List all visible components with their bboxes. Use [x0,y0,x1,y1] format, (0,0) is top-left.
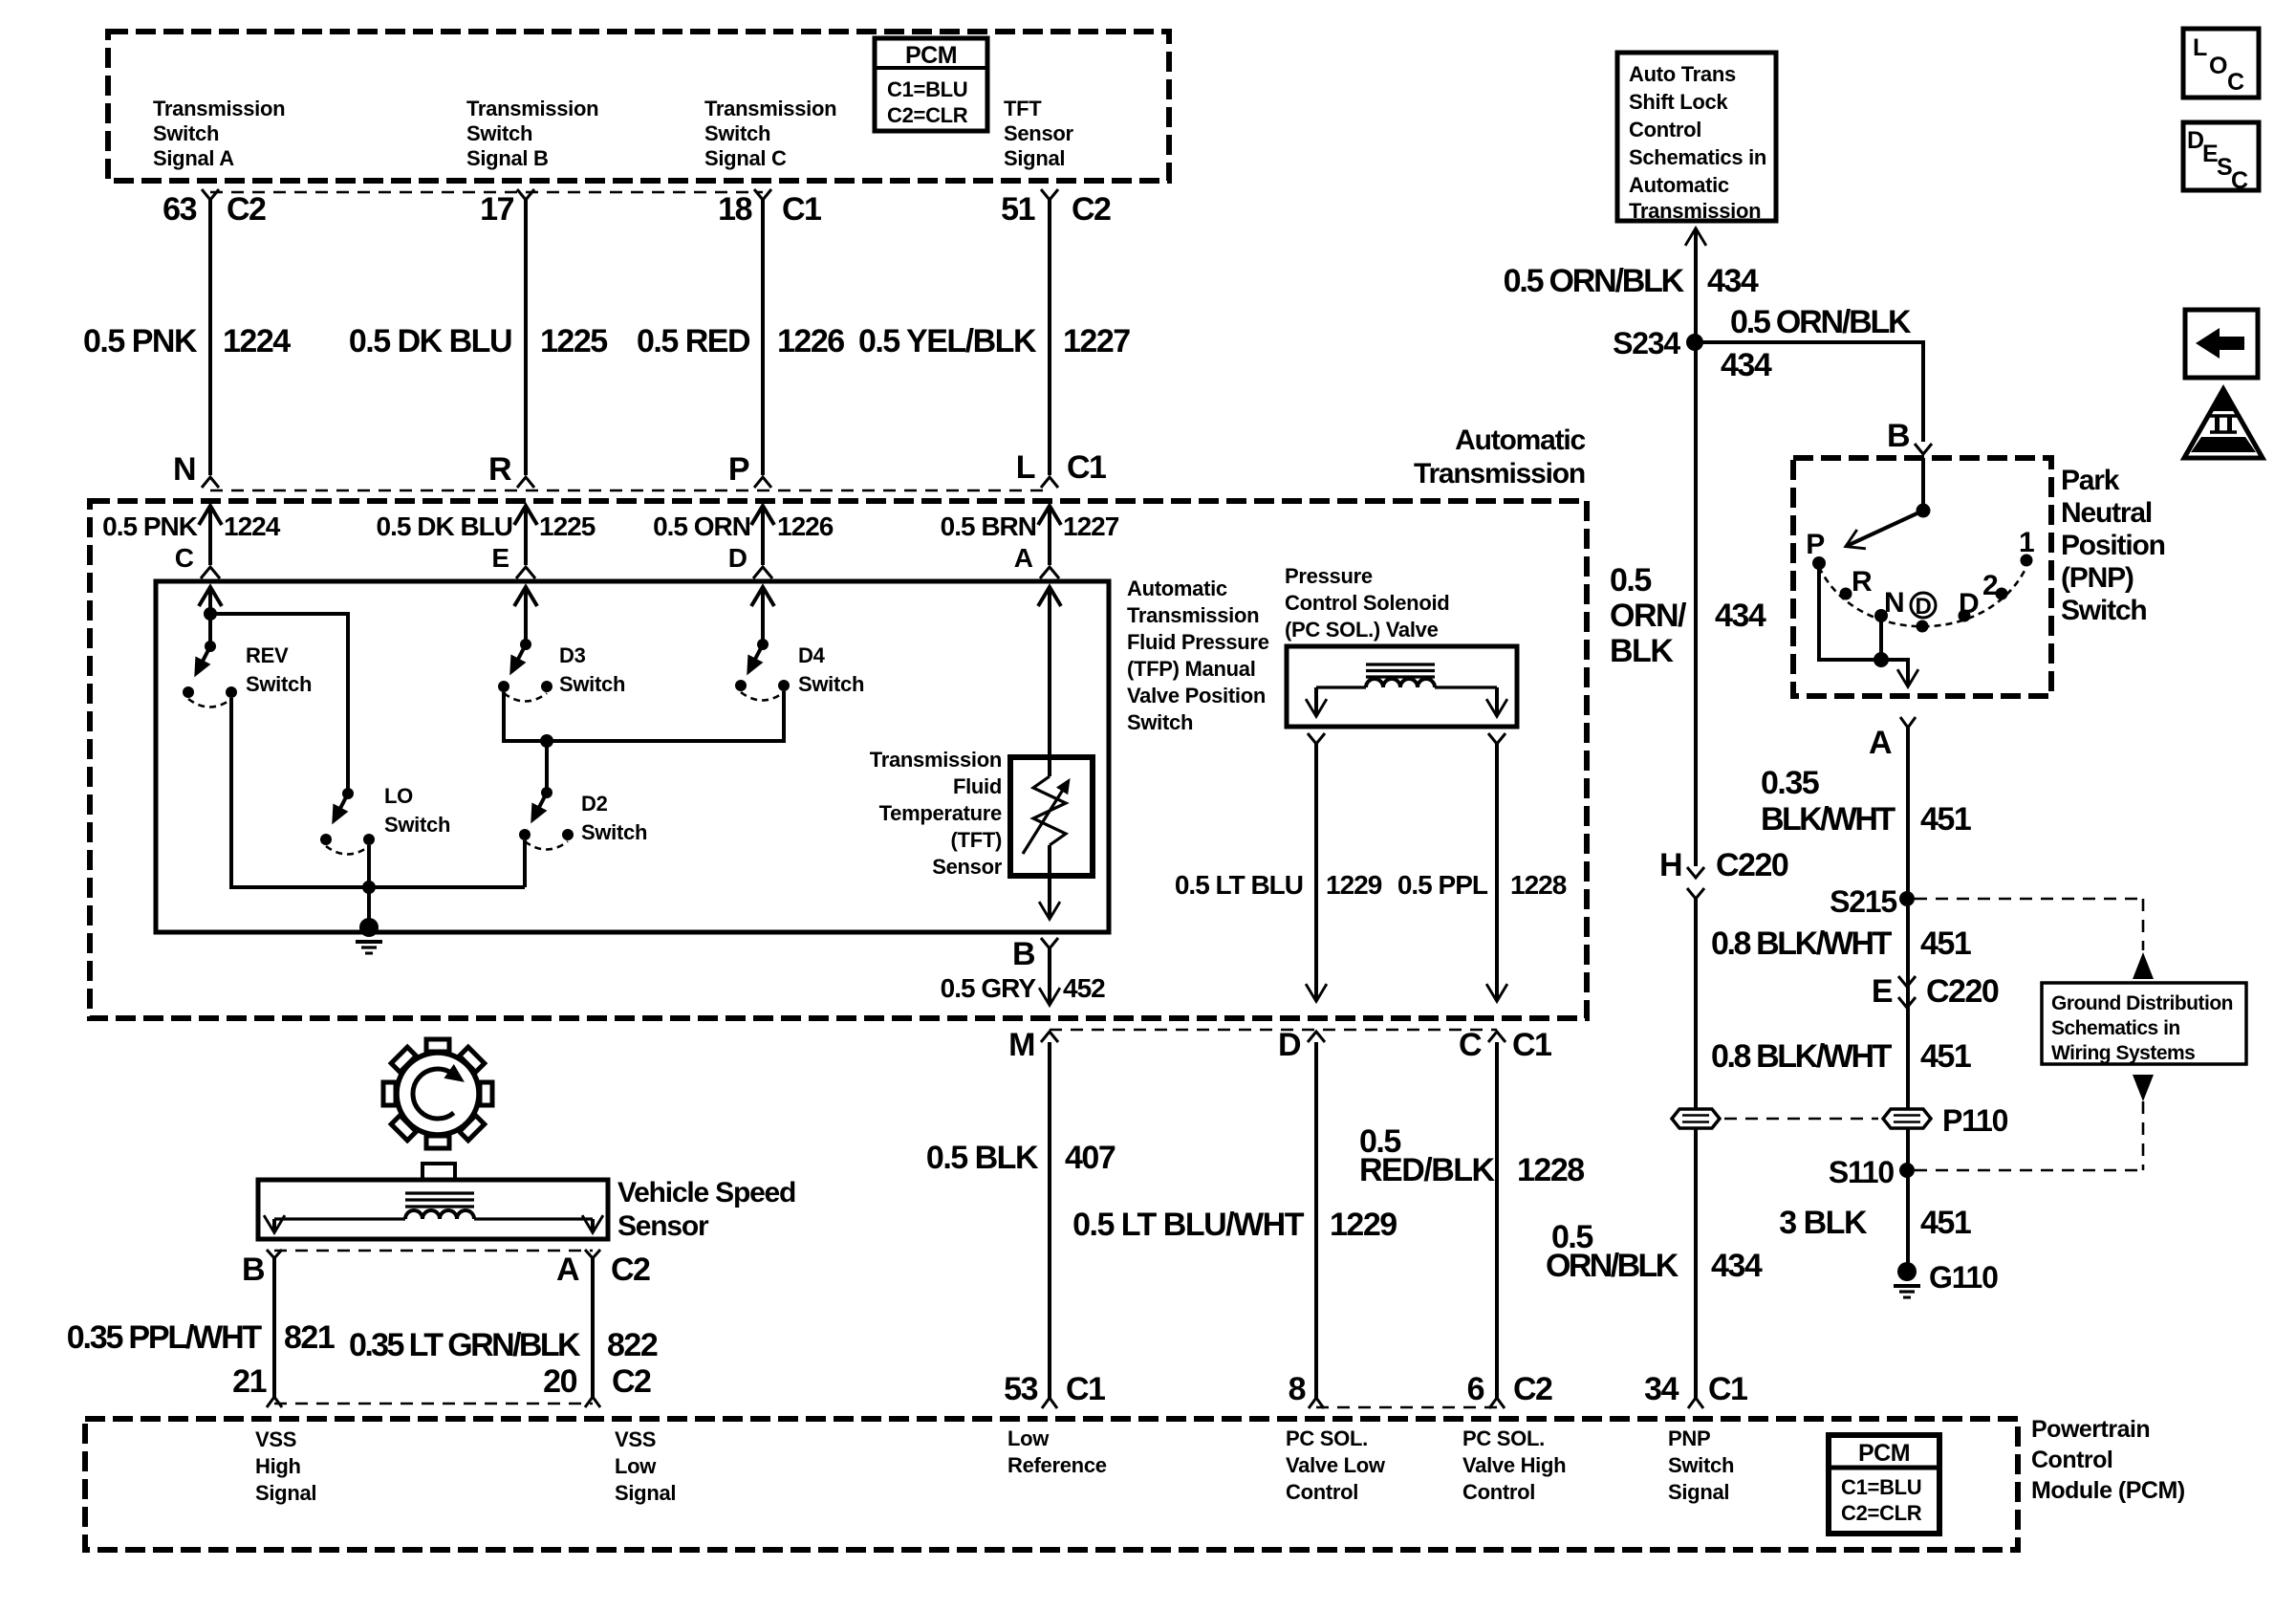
svg-text:(PC SOL.) Valve: (PC SOL.) Valve [1285,618,1439,642]
pin label 8 [1289,1371,1306,1407]
ground TFP switch [356,918,382,953]
wire label 0.5 ORN/BLK 434 vertical [1610,562,1766,669]
wire label 0.5 ORN 1226 inner [653,512,834,573]
svg-text:1226: 1226 [777,323,844,359]
svg-text:VSS: VSS [255,1427,296,1451]
icon LOC box [2183,29,2259,98]
PNP selector arm [1847,458,1931,546]
wire 1225 top (0.5 DK BLU) pin 17 to R [517,189,534,488]
switch D3 [498,639,552,702]
svg-text:1228: 1228 [1510,870,1567,900]
svg-text:A: A [1869,725,1892,761]
svg-text:C1: C1 [782,191,821,228]
svg-text:51: 51 [1001,191,1034,228]
svg-text:D2: D2 [581,792,608,816]
svg-text:34: 34 [1644,1371,1679,1407]
svg-text:Control: Control [1629,118,1701,142]
connector line 21 20 [274,1403,593,1405]
svg-text:D3: D3 [559,643,586,667]
svg-text:63: 63 [162,191,196,228]
svg-text:Position: Position [2061,530,2165,561]
svg-text:Automatic: Automatic [1455,425,1585,456]
svg-text:C2: C2 [1072,191,1111,228]
svg-text:Switch: Switch [581,820,647,844]
PNP contact 2 [1982,570,2008,601]
svg-text:D: D [1915,594,1931,620]
svg-text:P: P [728,451,749,488]
VSS reluctor gear icon [383,1039,492,1148]
wire 1227 AT entry pin A [1038,506,1061,578]
Ground Distribution reference box [2042,952,2246,1170]
svg-text:Switch: Switch [1668,1453,1734,1477]
wire label 0.5 LT BLU 1229 [1175,870,1382,900]
svg-text:1224: 1224 [224,512,281,541]
connector line M D C [1050,1029,1497,1032]
svg-text:E: E [1872,973,1893,1010]
PNP contact R [1840,566,1874,600]
svg-text:Sensor: Sensor [1004,121,1074,145]
svg-text:C2: C2 [227,191,266,228]
svg-text:C2: C2 [611,1252,650,1288]
svg-text:1225: 1225 [539,512,596,541]
svg-text:Ground Distribution: Ground Distribution [2051,992,2233,1014]
svg-text:LO: LO [384,784,413,808]
connector line top (PCM side) [210,191,763,194]
label Transmission Switch Signal B [466,97,598,170]
svg-text:0.5 ORN: 0.5 ORN [653,512,750,541]
wire label 0.5 PNK 1224 [83,323,291,359]
svg-text:Sensor: Sensor [932,855,1003,879]
svg-text:18: 18 [718,191,751,228]
svg-text:Control: Control [1462,1480,1535,1504]
svg-text:Automatic: Automatic [1629,173,1729,197]
svg-text:S110: S110 [1829,1155,1895,1189]
wire 1228 (0.5 RED/BLK) pin C to 6 C2 [1488,1032,1505,1408]
splice S234 [1613,326,1703,360]
svg-text:Transmission: Transmission [153,97,285,120]
connector line 8 6 [1316,1406,1497,1409]
svg-text:Control: Control [1286,1480,1358,1504]
wire LO to ground node [367,845,371,887]
label TFT Sensor Signal [1004,97,1074,170]
svg-text:Transmission: Transmission [466,97,598,120]
svg-text:C220: C220 [1926,973,1999,1010]
svg-text:S234: S234 [1613,326,1680,360]
label LO Switch [384,784,450,837]
wire label 0.5 BRN 1227 inner [941,512,1119,573]
wire D3 entry [514,586,537,644]
svg-text:Fluid Pressure: Fluid Pressure [1127,630,1269,654]
svg-text:Reference: Reference [1007,1453,1107,1477]
wire D4 entry [751,586,774,644]
svg-text:ORN/BLK: ORN/BLK [1546,1248,1679,1284]
wire label 0.5 DK BLU 1225 [349,323,607,359]
svg-text:434: 434 [1707,263,1759,299]
svg-text:Signal: Signal [1668,1480,1729,1504]
svg-text:L: L [1016,449,1035,486]
TFT sensor box [1010,757,1093,876]
VSS stem [422,1164,455,1180]
svg-text:B: B [242,1252,265,1288]
label REV Switch [246,643,312,696]
svg-text:D: D [728,543,747,573]
svg-text:Valve Position: Valve Position [1127,684,1266,708]
svg-text:1227: 1227 [1063,323,1130,359]
svg-text:Schematics in: Schematics in [2051,1017,2180,1039]
label D3 Switch [559,643,625,696]
VSS sensor box [258,1180,608,1239]
svg-text:Park: Park [2061,465,2120,496]
svg-text:R: R [1852,566,1873,598]
pin label P [728,451,749,488]
svg-text:821: 821 [284,1319,335,1356]
svg-text:0.5 BRN: 0.5 BRN [941,512,1036,541]
pin label B [242,1252,265,1288]
wire 1229 (0.5 LT BLU/WHT) pin D to 8 [1308,1032,1325,1408]
wire 1227 top (0.5 YEL/BLK) pin 51 C2 to L [1041,189,1058,488]
svg-text:17: 17 [480,191,513,228]
solenoid coil PC SOL [1316,664,1497,687]
svg-text:C: C [175,543,194,573]
svg-text:434: 434 [1715,598,1766,634]
wire D3-D4 common [504,691,784,741]
label VSS High Signal [255,1427,316,1505]
svg-text:Switch: Switch [798,672,864,696]
svg-text:PC SOL.: PC SOL. [1462,1426,1545,1450]
svg-text:Switch: Switch [1127,710,1193,734]
PNP contact D circled [1911,593,1936,633]
Auto Trans Shift Lock reference box [1617,53,1776,223]
wire VSS right lead arrow [591,1219,595,1231]
label Pressure Control Solenoid Valve [1285,564,1449,642]
svg-text:1: 1 [2019,527,2034,558]
label TFT sensor [870,748,1003,879]
svg-text:407: 407 [1065,1140,1116,1176]
svg-text:Valve High: Valve High [1462,1453,1566,1477]
PNP contact P [1806,529,1826,570]
svg-text:0.5 GRY: 0.5 GRY [941,973,1037,1003]
svg-text:0.5 DK BLU: 0.5 DK BLU [349,323,511,359]
pin label 20 C2 [543,1363,651,1400]
wire 1226 top (0.5 RED) pin 18 C1 to P [754,189,771,488]
svg-text:C1: C1 [1708,1371,1747,1407]
svg-text:Fluid: Fluid [953,774,1002,798]
svg-text:C1=BLU: C1=BLU [887,77,967,101]
wire label 0.5 DK BLU 1225 inner [377,512,596,573]
junction D2 node [540,734,553,793]
label PNP Switch Signal [1668,1426,1734,1504]
svg-text:0.35 LT GRN/BLK: 0.35 LT GRN/BLK [349,1327,581,1363]
wire 1226 AT entry pin D [751,506,774,578]
svg-text:C: C [2231,167,2248,194]
svg-text:Transmission: Transmission [1414,458,1585,490]
svg-text:822: 822 [607,1327,658,1363]
label VSS Low Signal [615,1427,676,1505]
title Powertrain Control Module (PCM) bottom [2031,1416,2185,1504]
svg-text:0.5: 0.5 [1610,562,1651,599]
pin label N [173,451,195,488]
wire 1229 below solenoid [1308,733,1325,1000]
svg-text:0.5 DK BLU: 0.5 DK BLU [377,512,512,541]
svg-text:Control: Control [2031,1447,2112,1473]
svg-text:Switch: Switch [466,121,532,145]
connector line N R P L [210,490,1050,492]
svg-text:Signal C: Signal C [704,146,787,170]
svg-text:21: 21 [232,1363,266,1400]
svg-text:Module (PCM): Module (PCM) [2031,1477,2185,1504]
connector C220 pin E [1872,973,1999,1010]
wire 407 (0.5 BLK) pin M to 53 C1 [1041,1032,1058,1408]
PNP contact N [1874,587,1903,622]
svg-text:434: 434 [1721,347,1772,383]
wire label 0.5 RED 1226 [637,323,844,359]
pin label 17 [480,191,513,228]
svg-text:Pressure: Pressure [1285,564,1373,588]
wire label 0.8 BLK/WHT 451 lower [1711,1038,1971,1075]
svg-text:0.8 BLK/WHT: 0.8 BLK/WHT [1711,925,1893,962]
svg-text:Transmission: Transmission [1127,603,1259,627]
svg-text:BLK: BLK [1610,633,1674,669]
svg-text:1226: 1226 [777,512,834,541]
wire label 0.8 BLK/WHT 451 upper [1711,925,1971,962]
svg-text:0.35: 0.35 [1761,765,1819,801]
svg-text:Signal: Signal [1004,146,1065,170]
svg-text:S: S [2217,154,2232,181]
svg-text:Switch: Switch [246,672,312,696]
switch REV [183,641,237,708]
svg-text:G110: G110 [1929,1260,1998,1295]
svg-text:451: 451 [1920,801,1971,838]
svg-text:Switch: Switch [704,121,770,145]
svg-text:E: E [491,543,509,573]
thermistor TFT zigzag [1023,776,1068,876]
wire 1224 top (0.5 PNK) pin 63 C2 to N [202,189,219,488]
svg-text:Signal B: Signal B [466,146,549,170]
icon DESC box [2183,122,2259,194]
svg-text:1228: 1228 [1517,1152,1584,1188]
svg-text:Temperature: Temperature [879,801,1002,825]
svg-text:BLK/WHT: BLK/WHT [1761,801,1895,838]
wire REV branch entry [199,586,222,646]
svg-text:Control Solenoid: Control Solenoid [1285,591,1449,615]
pin label A PNP [1869,717,1916,761]
wire solenoid left lead arrow [1314,687,1318,715]
wire label 0.5 ORN/BLK 434 branch [1721,304,1912,383]
pin label B [1012,936,1035,972]
label D4 Switch [798,643,864,696]
svg-text:OBD II: OBD II [2206,437,2242,451]
wire 434 branch to PNP switch [1696,342,1932,454]
wire label 0.35 PPL/WHT 821 [67,1319,335,1356]
svg-text:0.5 ORN/BLK: 0.5 ORN/BLK [1730,304,1912,340]
svg-text:0.35 PPL/WHT: 0.35 PPL/WHT [67,1319,263,1356]
svg-text:Schematics in: Schematics in [1629,145,1766,169]
svg-text:(TFP) Manual: (TFP) Manual [1127,657,1256,681]
svg-text:Switch: Switch [384,813,450,837]
title Automatic Transmission [1414,425,1586,490]
svg-text:B: B [1887,418,1910,454]
svg-text:Switch: Switch [153,121,219,145]
svg-text:Powertrain: Powertrain [2031,1416,2150,1443]
pin label D [1278,1027,1301,1063]
wire PNP P to output [1819,567,1908,686]
svg-text:PNP: PNP [1668,1426,1710,1450]
pin label 63 C2 [162,191,266,228]
wire label 0.5 BLK 407 [926,1140,1116,1176]
wire label 0.35 LT GRN/BLK 822 [349,1327,658,1363]
svg-text:R: R [488,451,511,488]
svg-text:434: 434 [1711,1248,1763,1284]
svg-text:Signal: Signal [255,1481,316,1505]
svg-text:Low: Low [615,1454,657,1478]
wire 1224 AT entry pin C [199,506,222,578]
pin label R [488,451,511,488]
label PC SOL Valve Low Control [1286,1426,1386,1504]
svg-text:20: 20 [543,1363,576,1400]
wire label 0.5 RED/BLK 1228 [1359,1123,1584,1188]
pin label M [1008,1027,1034,1063]
title Vehicle Speed Sensor [617,1177,795,1242]
svg-text:A: A [1014,543,1033,573]
label PC SOL Valve High Control [1462,1426,1566,1504]
label Transmission Switch Signal A [153,97,285,170]
pin label 51 C2 [1001,191,1111,228]
wire 434 PNP signal main [1694,342,1698,866]
svg-text:C2=CLR: C2=CLR [887,103,968,127]
PCM top module box (Powertrain Control Module) [108,32,1169,181]
wire label 3 BLK 451 [1779,1205,1971,1241]
label Low Reference [1007,1426,1107,1477]
label Transmission Switch Signal C [704,97,836,170]
svg-text:D: D [1278,1027,1301,1063]
svg-text:O: O [2209,53,2227,79]
svg-text:Transmission: Transmission [870,748,1002,772]
wire 434 PNP signal lower [1694,899,1698,1400]
svg-text:8: 8 [1289,1371,1306,1407]
wire label 0.5 LT BLU/WHT 1229 [1072,1207,1397,1243]
svg-text:Transmission: Transmission [1629,199,1761,223]
svg-text:Sensor: Sensor [617,1210,709,1242]
PCM connector legend box bottom [1829,1435,1939,1534]
svg-text:Auto Trans: Auto Trans [1629,62,1736,86]
svg-text:PCM: PCM [1858,1440,1910,1467]
wire label 0.5 PPL 1228 [1397,870,1567,900]
svg-text:(TFT): (TFT) [951,828,1002,852]
PNP contact D [1959,588,1980,622]
wire 451 PNP to ground [1906,728,1910,1268]
svg-text:VSS: VSS [615,1427,656,1451]
PCM connector legend box top [875,38,987,131]
PCM bottom module box (Powertrain Control Module) [85,1419,2018,1550]
label D2 Switch [581,792,647,844]
wire 1228 below solenoid [1488,733,1505,1000]
splice S110 [1829,1155,2143,1189]
wire PNP signal bottom chevron [1688,1398,1703,1408]
svg-text:2: 2 [1982,570,1998,601]
label TFP switch description [1127,577,1269,734]
wire TFT sensor entry [1038,586,1061,776]
connector line B A [274,1250,593,1252]
svg-text:Wiring Systems: Wiring Systems [2051,1042,2195,1064]
svg-text:B: B [1012,936,1035,972]
pin label 21 [232,1363,266,1400]
title Park Neutral Position (PNP) Switch [2061,465,2165,626]
ground G110 [1894,1260,1998,1297]
svg-text:Low: Low [1007,1426,1050,1450]
PNP contact arc [1819,567,2026,626]
svg-text:53: 53 [1004,1371,1037,1407]
svg-text:0.5 ORN/BLK: 0.5 ORN/BLK [1504,263,1685,299]
svg-text:1227: 1227 [1063,512,1119,541]
svg-text:(PNP): (PNP) [2061,562,2134,594]
svg-text:Valve Low: Valve Low [1286,1453,1386,1477]
wire solenoid right lead arrow [1495,687,1499,715]
connector C220 pin H [1659,847,1788,899]
svg-text:C1: C1 [1067,449,1106,486]
pin label B PNP [1887,418,1910,454]
svg-text:Automatic: Automatic [1127,577,1227,600]
wire 822 pin A to 20 [585,1250,600,1407]
svg-text:0.5 PNK: 0.5 PNK [83,323,198,359]
svg-text:451: 451 [1920,1205,1971,1241]
svg-text:RED/BLK: RED/BLK [1359,1152,1496,1188]
svg-text:PCM: PCM [905,42,957,69]
TFP manual valve position switch box [156,581,1109,932]
svg-text:Neutral: Neutral [2061,497,2152,529]
svg-text:0.5 LT BLU/WHT: 0.5 LT BLU/WHT [1072,1207,1305,1243]
wire 821 pin B to 21 [267,1250,282,1407]
svg-text:1225: 1225 [540,323,607,359]
svg-text:Vehicle Speed: Vehicle Speed [617,1177,795,1208]
svg-text:C1: C1 [1066,1371,1105,1407]
svg-text:Signal: Signal [615,1481,676,1505]
wire VSS left lead arrow [272,1219,276,1231]
pin label 18 C1 [718,191,821,228]
wire label 0.5 PNK 1224 inner [102,512,281,573]
svg-text:E: E [2202,141,2218,167]
svg-text:451: 451 [1920,1038,1971,1075]
svg-text:C: C [2227,69,2244,96]
svg-text:L: L [2193,34,2207,61]
svg-text:6: 6 [1467,1371,1484,1407]
VSS coil [274,1193,593,1219]
svg-text:C1=BLU: C1=BLU [1841,1475,1921,1499]
svg-text:3 BLK: 3 BLK [1779,1205,1868,1241]
PNP switch dashed box [1793,458,2051,696]
svg-text:Switch: Switch [2061,595,2146,626]
pin label A C2 [556,1252,650,1288]
connector P110 pass-through right [1724,1103,2008,1138]
svg-text:C1: C1 [1512,1027,1551,1063]
switch LO [320,788,375,855]
svg-text:TFT: TFT [1004,97,1042,120]
svg-text:PC SOL.: PC SOL. [1286,1426,1368,1450]
icon OBD II triangle [2184,389,2263,458]
wire REV to common [231,698,525,887]
svg-text:N: N [1884,587,1903,619]
svg-text:H: H [1659,847,1681,883]
svg-text:0.5 PPL: 0.5 PPL [1397,870,1488,900]
pin label 6 C2 [1467,1371,1552,1407]
svg-text:Switch: Switch [559,672,625,696]
svg-text:P110: P110 [1942,1103,2008,1138]
svg-text:0.5 RED: 0.5 RED [637,323,750,359]
svg-text:C220: C220 [1716,847,1788,883]
wire D2 to common [523,840,527,887]
svg-text:N: N [173,451,195,488]
wire 1225 AT entry pin E [514,506,537,578]
svg-text:C2=CLR: C2=CLR [1841,1501,1922,1525]
